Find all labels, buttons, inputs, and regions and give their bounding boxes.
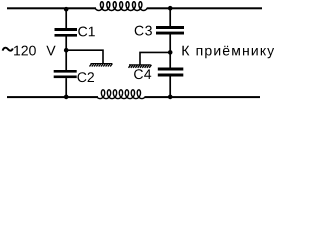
ground left <box>90 64 113 67</box>
node junction dot mid-right <box>168 50 173 55</box>
label C3 <box>135 26 152 36</box>
capacitor C4 <box>158 68 184 77</box>
wire top-right segment <box>147 7 262 9</box>
wire bottom-right segment <box>145 96 261 98</box>
ground right <box>129 65 152 68</box>
inductor L2 (bottom coil) <box>97 90 145 99</box>
node junction dot mid-left <box>64 48 69 53</box>
label C2 <box>78 72 95 82</box>
inductor L1 (top coil) <box>95 2 147 11</box>
wire bottom-left segment <box>7 96 98 98</box>
label C4 <box>134 69 151 79</box>
label C1 <box>78 27 95 37</box>
label 120 V <box>14 46 36 56</box>
label K priyomniku <box>182 46 274 59</box>
node junction dot top-left <box>64 7 69 12</box>
label ~ (AC symbol) <box>3 48 13 51</box>
wire C4 branch bottom <box>169 77 171 98</box>
wire between C1 and C2 <box>65 37 67 71</box>
node junction dot bottom-left <box>64 95 69 100</box>
capacitor C2 <box>54 70 77 78</box>
wire between C3 and C4 <box>169 35 171 68</box>
capacitor C1 <box>55 28 78 37</box>
wire C1 branch top <box>65 8 67 28</box>
wire top-left segment <box>7 7 96 9</box>
capacitor C3 <box>156 26 184 35</box>
wire C2 branch bottom <box>65 78 67 97</box>
wire C3 branch top <box>169 8 171 26</box>
node junction dot top-right <box>168 6 173 11</box>
wire to right ground <box>140 52 170 65</box>
wire to left ground <box>66 50 103 64</box>
node junction dot bottom-right <box>168 95 173 100</box>
